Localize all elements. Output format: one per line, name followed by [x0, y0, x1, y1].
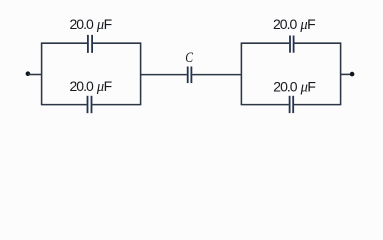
wire: right loop top side, left lead of C3 — [241, 42, 290, 44]
wire: middle link, left lead of capacitor C — [141, 74, 187, 76]
svg-text:20.0 μF: 20.0 μF — [70, 78, 112, 95]
wire: left loop right edge — [140, 43, 142, 104]
capacitor C4 (bottom right, 20.0 uF) plates — [290, 96, 294, 113]
wire: left loop bottom side, left lead of C2 — [41, 104, 87, 106]
wire: left parallel-loop left edge — [41, 43, 43, 104]
left terminal dot — [26, 71, 31, 76]
wire: right loop top side, right lead of C3 — [294, 42, 341, 44]
wire: right loop bottom side, right lead of C4 — [294, 104, 341, 106]
wire: left loop top side, right lead of C1 — [93, 42, 141, 44]
capacitor C3 (top right, 20.0 uF) plates — [290, 36, 294, 53]
svg-text:20.0 μF: 20.0 μF — [70, 16, 112, 33]
wire: right stub from right loop to terminal — [341, 73, 352, 75]
wire: left loop top side, left lead of C1 — [41, 42, 87, 44]
wire: left stub from terminal to left loop — [28, 74, 42, 76]
wire: right parallel-loop left edge — [240, 43, 242, 104]
capacitor C1 (top left, 20.0 uF) plates — [88, 35, 92, 53]
svg-text:C: C — [185, 49, 194, 66]
wire: middle link, right lead of capacitor C — [192, 74, 241, 76]
svg-text:20.0 μF: 20.0 μF — [273, 78, 315, 95]
capacitor C (series, middle) plates — [188, 67, 192, 84]
capacitor C2 (bottom left, 20.0 uF) plates — [88, 96, 92, 113]
wire: right loop right edge — [340, 43, 342, 104]
right terminal dot — [350, 72, 355, 77]
wire: right loop bottom side, left lead of C4 — [241, 104, 289, 106]
svg-text:20.0 μF: 20.0 μF — [273, 16, 315, 33]
wire: left loop bottom side, right lead of C2 — [92, 104, 141, 106]
